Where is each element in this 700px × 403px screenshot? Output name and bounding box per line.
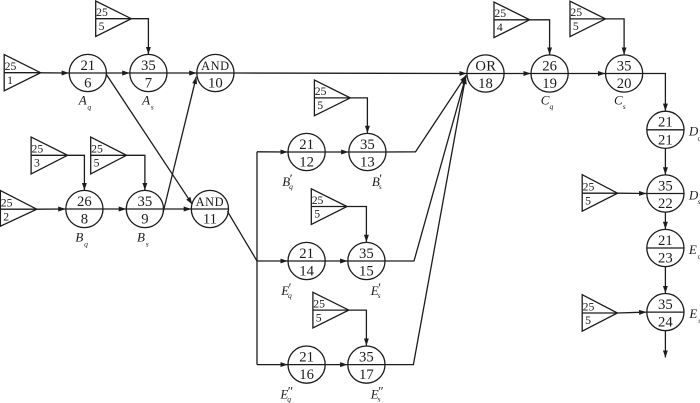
wire node 6 to AND 11 diagonal	[106, 75, 192, 205]
svg-text:5: 5	[573, 20, 579, 33]
node 19 (C_q)	[531, 55, 568, 92]
wire triangle above 8 into node 8	[68, 155, 85, 190]
svg-text:B: B	[75, 230, 83, 245]
label B_s	[137, 230, 149, 249]
svg-text:5: 5	[94, 157, 100, 170]
AND gate 11	[191, 190, 228, 227]
svg-text:26: 26	[542, 58, 557, 74]
svg-text:18: 18	[478, 76, 493, 92]
svg-text:5: 5	[99, 20, 105, 33]
AND gate 10	[197, 54, 234, 91]
wire triangle above 20 into node 20	[606, 19, 625, 55]
svg-text:10: 10	[208, 76, 223, 92]
label E''_q	[279, 384, 293, 403]
label E'_q	[280, 280, 292, 300]
label B_q	[75, 230, 88, 249]
source triangle 25/5 above node 20	[570, 1, 606, 36]
OR gate 18	[467, 55, 504, 92]
node 6 (A_q)	[69, 54, 106, 91]
svg-text:s: s	[378, 291, 381, 300]
wire node 9 to AND 11	[164, 208, 191, 210]
wire triangle1 to node 6	[41, 72, 69, 74]
node 22 (D_s)	[647, 175, 684, 212]
svg-text:s: s	[151, 102, 154, 111]
wire node 24 output	[664, 331, 666, 358]
svg-text:15: 15	[359, 264, 374, 280]
svg-text:5: 5	[317, 99, 323, 112]
svg-text:19: 19	[542, 76, 557, 92]
wire node 23 to node 24	[664, 267, 666, 293]
svg-text:5: 5	[585, 314, 591, 327]
svg-text:16: 16	[299, 367, 314, 383]
wire node 9 to AND 10 diagonal	[163, 77, 196, 212]
wire triangle above 13 into node 13	[350, 98, 367, 133]
svg-text:20: 20	[617, 76, 632, 92]
svg-text:8: 8	[81, 212, 88, 228]
svg-text:B: B	[137, 230, 145, 245]
svg-text:6: 6	[84, 76, 91, 92]
svg-text:25: 25	[1, 197, 13, 210]
wire triangle2 to node 8	[37, 208, 66, 210]
svg-text:21: 21	[658, 115, 673, 131]
svg-text:21: 21	[658, 132, 673, 148]
node 13 (B'_s)	[349, 133, 386, 170]
source triangle 25/5 above node 9	[91, 137, 127, 174]
source triangle 25/5 above node 7	[96, 1, 132, 36]
svg-text:1: 1	[7, 74, 13, 87]
svg-text:s: s	[623, 102, 626, 111]
wire triangle to node 24	[617, 311, 646, 314]
wire OR 18 to node 19	[504, 73, 530, 75]
wire node 6 to node 7	[106, 72, 129, 74]
wire branch to node 14	[257, 260, 288, 262]
svg-text:q: q	[84, 239, 88, 248]
wire node 20 to node 21	[643, 74, 666, 111]
svg-text:35: 35	[359, 246, 374, 262]
svg-text:OR: OR	[475, 58, 496, 74]
svg-text:35: 35	[141, 58, 156, 74]
svg-text:A: A	[141, 93, 150, 108]
source triangle 25/5 left of node 22	[582, 175, 617, 212]
svg-text:25: 25	[96, 6, 108, 19]
label B'_s	[372, 171, 382, 191]
node 23 (E_q)	[647, 229, 684, 266]
svg-text:25: 25	[312, 194, 324, 207]
label B'_q	[282, 171, 293, 191]
wire triangle above 9 into node 9	[127, 155, 145, 190]
label C_s	[614, 92, 626, 111]
wire node 8 to node 9	[103, 208, 126, 210]
label E_q	[688, 242, 700, 261]
wire AND 10 to OR 18	[234, 72, 467, 75]
label E'_s	[370, 280, 381, 300]
svg-text:A: A	[78, 93, 87, 108]
svg-text:21: 21	[299, 246, 314, 262]
svg-text:21: 21	[299, 137, 314, 153]
wire node 12 to node 13	[325, 151, 348, 153]
svg-text:2: 2	[3, 210, 9, 223]
wire node 7 to AND 10	[167, 72, 196, 74]
wire branch to node 12	[257, 151, 288, 153]
node 7 (A_s)	[130, 54, 167, 91]
svg-text:q: q	[550, 102, 554, 111]
wire branch vertical bus	[256, 152, 258, 365]
svg-text:E: E	[688, 242, 697, 257]
wire node 19 to node 20	[568, 73, 605, 75]
wire node 15 to OR 18	[385, 76, 466, 261]
wire node 17 to OR 18	[385, 77, 466, 365]
source triangle 25/5 above node 15	[311, 189, 347, 225]
svg-text:35: 35	[138, 194, 153, 210]
svg-text:21: 21	[80, 58, 95, 74]
svg-text:5: 5	[585, 194, 591, 207]
svg-text:25: 25	[315, 85, 327, 98]
svg-text:AND: AND	[196, 195, 225, 209]
label A_s	[141, 93, 154, 112]
label E''_s	[370, 384, 384, 403]
svg-text:25: 25	[583, 181, 595, 194]
svg-text:25: 25	[91, 143, 103, 156]
svg-text:s: s	[146, 239, 149, 248]
label C_q	[541, 92, 554, 111]
node 20 (C_s)	[606, 55, 643, 92]
wire triangle to node 22	[618, 192, 647, 194]
wire node 21 to node 22	[664, 148, 666, 174]
svg-text:25: 25	[494, 7, 506, 20]
svg-text:3: 3	[34, 157, 40, 170]
node 15 (E'_s)	[348, 242, 385, 279]
svg-text:35: 35	[658, 178, 673, 194]
label D_s	[688, 187, 700, 206]
svg-text:22: 22	[658, 196, 673, 212]
wire node 16 to node 17	[325, 364, 347, 366]
svg-text:35: 35	[617, 58, 632, 74]
svg-text:9: 9	[141, 212, 148, 228]
svg-text:s: s	[379, 182, 382, 191]
label A_q	[78, 93, 92, 112]
svg-text:21: 21	[299, 349, 314, 365]
node 21 (D_q)	[647, 111, 684, 148]
svg-text:q: q	[289, 182, 293, 191]
svg-text:13: 13	[360, 155, 375, 171]
label E_s	[688, 306, 700, 325]
svg-text:q: q	[287, 394, 291, 403]
source triangle 25/4 above node 19	[494, 2, 530, 38]
source triangle 25/2	[0, 191, 36, 227]
svg-text:4: 4	[497, 21, 503, 34]
svg-text:17: 17	[359, 367, 374, 383]
wire branch to node 16	[257, 364, 288, 366]
node 14 (E'_q)	[288, 242, 325, 279]
node 16 (E''_q)	[288, 346, 325, 383]
svg-text:12: 12	[299, 155, 314, 171]
wire triangle above 19 into node 19	[530, 20, 550, 55]
svg-text:5: 5	[314, 208, 320, 221]
svg-text:23: 23	[658, 251, 673, 267]
source triangle 25/5 above node 17	[313, 292, 349, 328]
source triangle 25/1	[4, 55, 40, 91]
node 24 (E_s)	[647, 294, 684, 331]
svg-text:C: C	[614, 92, 623, 107]
label D_q	[688, 124, 700, 143]
svg-text:24: 24	[658, 315, 673, 331]
svg-text:25: 25	[313, 297, 325, 310]
svg-text:5: 5	[316, 311, 322, 324]
svg-text:s: s	[378, 394, 381, 403]
node 8 (B_q)	[66, 190, 103, 227]
node 12 (B'_q)	[288, 133, 325, 170]
node 9 (B_s)	[126, 190, 163, 227]
wire triangle above 17 into node 17	[349, 310, 367, 345]
wire node 14 to node 15	[325, 260, 347, 262]
svg-text:35: 35	[359, 349, 374, 365]
source triangle 25/3 above node 8	[31, 137, 68, 174]
svg-text:C: C	[541, 92, 550, 107]
source triangle 25/5 above node 13	[314, 80, 350, 116]
svg-text:AND: AND	[201, 59, 230, 73]
svg-text:35: 35	[658, 297, 673, 313]
svg-text:7: 7	[145, 76, 152, 92]
svg-text:25: 25	[570, 6, 582, 19]
wire AND 11 output diagonal to branch	[227, 211, 257, 261]
wire triangle above 15 into node 15	[347, 207, 366, 242]
svg-text:26: 26	[77, 194, 92, 210]
svg-text:11: 11	[203, 212, 217, 228]
svg-text:E: E	[688, 306, 697, 321]
wire triangle above 7 into node 7	[131, 19, 148, 54]
node 17 (E''_s)	[348, 346, 385, 383]
svg-text:35: 35	[360, 137, 375, 153]
svg-text:q: q	[288, 291, 292, 300]
wire node 13 to OR 18	[386, 75, 466, 152]
svg-text:21: 21	[658, 233, 673, 249]
svg-text:25: 25	[5, 60, 17, 73]
wire node 22 to node 23	[664, 212, 666, 229]
svg-text:25: 25	[32, 143, 44, 156]
svg-text:25: 25	[583, 300, 595, 313]
svg-text:q: q	[87, 102, 91, 111]
svg-text:14: 14	[299, 264, 314, 280]
source triangle 25/5 left of node 24	[582, 295, 617, 332]
